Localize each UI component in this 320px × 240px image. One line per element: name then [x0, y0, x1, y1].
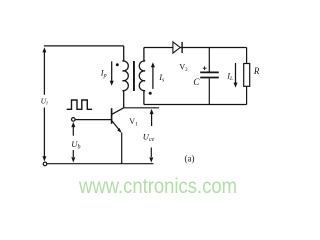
svg-text:Ip: Ip: [100, 67, 107, 79]
wire base: [75, 119, 111, 121]
node input terminal: [43, 162, 47, 166]
polarity dot secondary: [149, 92, 152, 95]
transformer secondary winding: [139, 48, 145, 105]
svg-text:www.cntronics.com: www.cntronics.com: [78, 175, 237, 198]
wire output top rail: [144, 47, 247, 49]
current arrow Ip: [110, 61, 114, 86]
wire capacitor lower lead: [208, 78, 210, 104]
svg-text:Uce: Uce: [143, 132, 155, 144]
polarity dot primary: [116, 63, 119, 66]
svg-text:Ub: Ub: [71, 139, 80, 151]
wire input top rail: [44, 45, 124, 47]
plus sign: [203, 66, 207, 70]
transformer core: [133, 61, 135, 91]
capacitor C: [200, 72, 219, 77]
svg-text:V2: V2: [179, 63, 188, 74]
svg-text:(a): (a): [185, 153, 195, 163]
voltage arrow Uce upper: [150, 109, 154, 126]
voltage arrow Ui: [42, 47, 46, 161]
current arrow IL: [234, 63, 238, 88]
wire resistor lower lead: [246, 86, 248, 104]
svg-text:C: C: [193, 77, 200, 87]
svg-text:R: R: [253, 66, 260, 76]
wire bottom rail: [47, 163, 154, 165]
voltage arrow Ub lower: [71, 150, 75, 163]
current arrow Is: [151, 62, 155, 89]
wire resistor upper lead: [246, 48, 248, 64]
voltage arrow Uce lower: [149, 148, 153, 163]
wire collector stub: [124, 107, 159, 109]
voltage arrow Ub upper: [71, 122, 75, 136]
node B base drive terminal: [72, 118, 76, 122]
transformer primary winding: [123, 46, 129, 108]
resistor R: [244, 64, 250, 87]
svg-text:Ui: Ui: [41, 96, 49, 106]
diode VD: [173, 42, 182, 53]
square wave Ub drive symbol: [67, 100, 92, 109]
svg-text:V1: V1: [129, 117, 138, 128]
transistor V1: [112, 108, 124, 164]
svg-text:IL: IL: [226, 71, 233, 83]
wire capacitor upper lead: [208, 48, 210, 72]
svg-text:Is: Is: [158, 72, 165, 84]
wire output bottom rail: [144, 104, 247, 106]
